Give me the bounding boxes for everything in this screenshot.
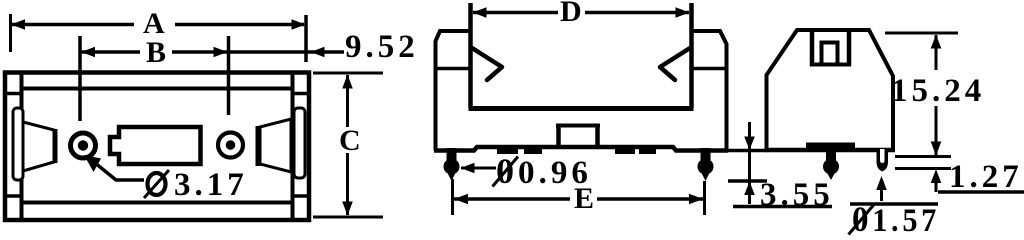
dim A extension line left bbox=[9, 14, 12, 52]
front body outline left bbox=[436, 31, 471, 151]
dim E line left segment bbox=[454, 197, 570, 201]
inner top line bbox=[20, 87, 294, 91]
right contact plate bbox=[294, 108, 305, 178]
dim B line left segment bbox=[81, 50, 140, 54]
dim C line bottom segment bbox=[346, 153, 349, 215]
left pin bbox=[444, 148, 460, 181]
svg-text:3.17: 3.17 bbox=[174, 167, 248, 203]
right pin bbox=[698, 148, 714, 181]
dim E line right segment bbox=[597, 197, 703, 201]
side notch inner rect bbox=[822, 43, 838, 65]
svg-text:01.57: 01.57 bbox=[852, 199, 940, 236]
center bump right side bbox=[595, 124, 600, 149]
svg-text:1.27: 1.27 bbox=[949, 159, 1023, 195]
left band tick bottom bbox=[5, 194, 22, 198]
dim C arrow down bbox=[342, 202, 353, 216]
right band tick top bbox=[293, 92, 310, 96]
dia 1.57 shelf line bbox=[850, 202, 938, 206]
svg-text:C: C bbox=[339, 124, 361, 157]
dim D arrow left bbox=[473, 7, 487, 18]
dim C extension line top bbox=[313, 72, 383, 75]
left trapezoid end bar bbox=[53, 129, 58, 163]
front left ledge bbox=[436, 67, 471, 71]
foot bump 3 bbox=[615, 147, 635, 154]
side bottom edge bbox=[765, 148, 895, 153]
side body outline bbox=[767, 30, 894, 150]
right hole ring bbox=[218, 133, 243, 158]
dim B extension line left bbox=[78, 36, 82, 121]
dim 9.52 arrow bbox=[311, 47, 325, 58]
svg-text:3.55: 3.55 bbox=[760, 177, 834, 213]
body outer rectangle bbox=[5, 73, 309, 221]
dim A line left segment bbox=[12, 23, 134, 27]
left battery clip bbox=[472, 48, 502, 80]
right band tick bottom bbox=[293, 194, 310, 198]
dim E extension line left bbox=[451, 179, 454, 215]
side notch outer right bbox=[847, 30, 852, 66]
dim A arrow right bbox=[292, 19, 306, 30]
dim 1.27 arrow up bbox=[931, 169, 942, 183]
dim 1.27 shelf line bbox=[938, 190, 1024, 194]
side hook bbox=[877, 149, 889, 172]
leader for hole diameter bbox=[89, 158, 144, 180]
right hole center dot bbox=[226, 140, 236, 150]
side bottom pad bbox=[806, 143, 855, 152]
right contact trapezoid bbox=[260, 119, 291, 172]
center bump left side bbox=[556, 124, 561, 149]
foot bump 2 bbox=[524, 147, 542, 154]
left contact plate bbox=[13, 108, 23, 180]
dim D arrow right bbox=[676, 7, 690, 18]
dim D line right segment bbox=[585, 11, 689, 15]
right inner vertical line bbox=[291, 72, 295, 220]
foot bump 1 bbox=[497, 147, 518, 154]
dim 15.24 arrow up bbox=[931, 35, 942, 49]
dia 0.96 arrowhead bbox=[461, 163, 475, 174]
dim 3.55 shelf line bbox=[733, 205, 832, 209]
left inner vertical line bbox=[20, 72, 24, 220]
front opening floor bbox=[469, 106, 694, 111]
dia 0.96 leader line bbox=[461, 167, 496, 170]
dim 3.55 tick top bbox=[728, 149, 767, 153]
dim A extension line right bbox=[304, 15, 308, 62]
right battery clip bbox=[660, 48, 690, 80]
dim 3.55 arrow down bbox=[744, 137, 755, 151]
front opening right wall bbox=[689, 3, 694, 108]
svg-text:E: E bbox=[574, 182, 594, 215]
dim 1.27 tick bottom bbox=[895, 167, 951, 170]
inner bottom line bbox=[20, 201, 294, 205]
dim 3.55 arrow up bbox=[744, 182, 755, 196]
dim 15.24 line upper segment bbox=[935, 35, 938, 70]
dim B extension line right bbox=[227, 36, 231, 115]
dim E arrow left bbox=[454, 194, 468, 205]
dim C arrow up bbox=[342, 75, 353, 89]
dim D line left segment bbox=[473, 11, 558, 15]
right trapezoid end bar bbox=[256, 126, 261, 166]
dia 1.57 arrow stem bbox=[880, 188, 883, 201]
dim E arrow right bbox=[689, 194, 703, 205]
label dia 3.17 bbox=[148, 173, 166, 195]
dim B arrow left bbox=[81, 47, 95, 58]
dim 3.55 tick bottom bbox=[728, 179, 767, 183]
dim 1.27 tick top bbox=[895, 155, 951, 158]
side notch outer left bbox=[810, 30, 815, 66]
foot bump 4 bbox=[639, 147, 656, 154]
dim C extension line bottom bbox=[313, 216, 383, 219]
front body outline right bbox=[692, 31, 727, 151]
svg-text:9.52: 9.52 bbox=[345, 29, 419, 65]
svg-text:15.24: 15.24 bbox=[891, 73, 985, 109]
dim A line right segment bbox=[175, 23, 304, 27]
left hole ring bbox=[71, 133, 96, 158]
side notch bottom bbox=[810, 63, 851, 67]
svg-text:D: D bbox=[560, 0, 582, 28]
dim C line top segment bbox=[346, 75, 349, 127]
front bottom edge bbox=[434, 147, 728, 151]
dim 1.27 arrow stem bbox=[935, 180, 938, 192]
dim B line right segment bbox=[172, 50, 344, 54]
dim A arrow left bbox=[11, 19, 25, 30]
leader arrowhead bbox=[84, 155, 101, 172]
dim 3.55 vertical line bbox=[748, 122, 751, 204]
front opening left wall bbox=[468, 3, 473, 108]
svg-text:B: B bbox=[146, 36, 166, 69]
side pin bbox=[823, 148, 839, 180]
dim E extension line right bbox=[703, 181, 706, 215]
front right ledge bbox=[692, 67, 727, 71]
dim 15.24 arrow down bbox=[931, 142, 942, 156]
center bump top bbox=[556, 124, 600, 128]
dim 15.24 top extension line bbox=[885, 32, 958, 35]
left band tick top bbox=[5, 92, 22, 96]
left contact trapezoid bbox=[23, 122, 54, 171]
battery window rectangle with tab bbox=[110, 127, 201, 164]
left hole center dot bbox=[78, 140, 88, 150]
dim 15.24 line lower segment bbox=[935, 106, 938, 155]
dia 1.57 arrow bbox=[876, 176, 887, 190]
dim B arrow right bbox=[214, 47, 228, 58]
